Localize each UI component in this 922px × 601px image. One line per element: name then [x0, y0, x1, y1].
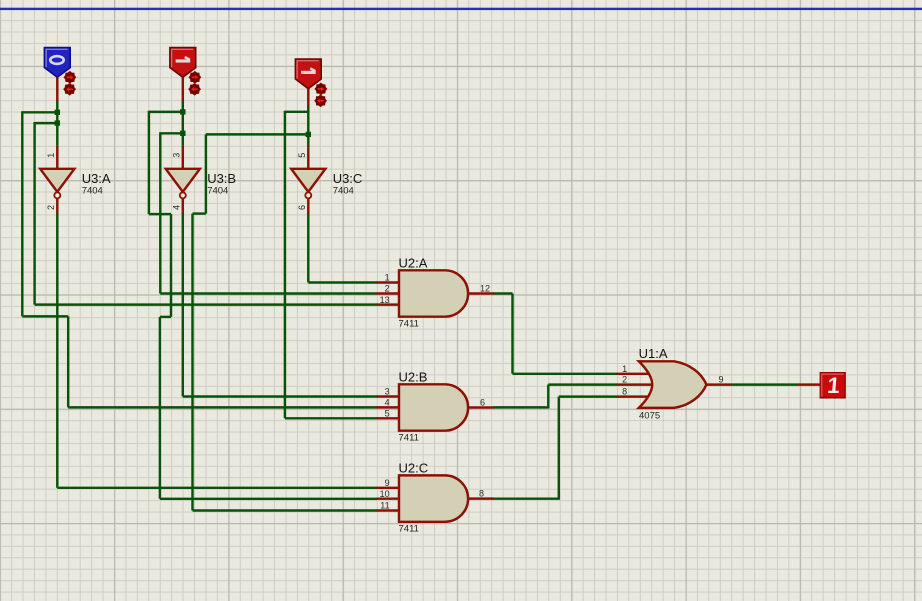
U3:C input pin 5 stub — [297, 147, 308, 170]
U2:B input pin 4 stub — [377, 398, 400, 408]
svg-text:8: 8 — [479, 489, 484, 499]
svg-text:13: 13 — [380, 295, 390, 305]
wire net C branch1 to U2:B pin5 — [285, 111, 378, 419]
junction net A upper — [55, 110, 60, 115]
AND gate U2:B (7411) — [399, 369, 469, 443]
svg-text:1: 1 — [385, 273, 390, 283]
svg-text:1: 1 — [622, 364, 627, 374]
svg-text:7411: 7411 — [399, 319, 419, 330]
U2:C input pin 10 stub — [377, 489, 400, 499]
svg-text:12: 12 — [480, 284, 490, 294]
U3:C output pin 6 stub — [297, 198, 308, 214]
svg-text:U1:A: U1:A — [639, 346, 668, 361]
probe C pin stub — [307, 89, 309, 108]
U2:A input pin 1 stub — [377, 273, 400, 283]
junction net A lower — [55, 120, 60, 125]
blue sheet border line (top) — [0, 8, 922, 10]
svg-text:U3:A: U3:A — [82, 171, 111, 186]
wire net B branch2 to U2:A pin2 — [160, 132, 377, 293]
U3:A output pin 2 stub — [46, 198, 57, 214]
svg-text:4: 4 — [385, 398, 390, 408]
svg-text:11: 11 — [380, 501, 389, 511]
svg-text:7404: 7404 — [82, 185, 103, 196]
toggle button A up — [64, 71, 76, 83]
svg-text:3: 3 — [172, 153, 182, 158]
input logic-state probe C (1) — [295, 59, 321, 89]
toggle button A down — [64, 83, 76, 95]
U1:A input pin 2 stub — [617, 375, 652, 385]
svg-text:7411: 7411 — [399, 524, 419, 535]
wire net A probe drop — [56, 102, 58, 146]
U2:A input pin 2 stub — [377, 284, 400, 294]
probe B pin stub — [182, 77, 184, 103]
svg-text:2: 2 — [46, 205, 56, 210]
svg-text:7404: 7404 — [333, 185, 354, 196]
svg-text:7411: 7411 — [399, 433, 419, 444]
U2:B output pin 6 stub — [467, 398, 493, 408]
svg-text:2: 2 — [622, 375, 627, 385]
wire net B probe drop — [182, 102, 184, 146]
AND gate U2:A (7411) — [399, 255, 469, 329]
inverter U3:C (7404) — [291, 169, 362, 199]
U2:A output pin 12 stub — [467, 284, 493, 294]
toggle button B up — [189, 71, 201, 83]
wire net B-bar U3:B out to U2:B pin3 — [183, 213, 378, 397]
svg-text:10: 10 — [380, 489, 390, 499]
svg-text:1: 1 — [46, 153, 56, 158]
toggle button C up — [315, 83, 327, 95]
inverter U3:A (7404) — [40, 169, 111, 199]
U1:A input pin 8 stub — [617, 387, 649, 397]
U2:B input pin 3 stub — [377, 387, 400, 397]
svg-text:5: 5 — [297, 153, 307, 158]
wire net C branch2 to U2:C pin11 — [193, 134, 378, 510]
svg-text:4075: 4075 — [639, 410, 660, 421]
U2:C input pin 9 stub — [377, 478, 400, 488]
svg-text:1: 1 — [826, 373, 841, 398]
svg-text:U3:B: U3:B — [207, 171, 236, 186]
svg-text:U2:B: U2:B — [399, 369, 428, 384]
output logic probe (1) — [820, 373, 845, 398]
svg-text:8: 8 — [622, 387, 627, 397]
AND gate U2:C (7411) — [399, 460, 469, 534]
svg-text:5: 5 — [385, 409, 390, 419]
svg-text:9: 9 — [385, 478, 390, 488]
svg-text:6: 6 — [480, 398, 485, 408]
toggle button B down — [189, 83, 201, 95]
inverter U3:B (7404) — [166, 169, 236, 199]
svg-text:3: 3 — [385, 387, 390, 397]
toggle button C down — [315, 95, 327, 107]
wire net C probe drop — [307, 106, 309, 147]
U2:C output pin 8 stub — [467, 489, 493, 499]
svg-text:6: 6 — [297, 205, 307, 210]
wire net U2:C out to U1:A pin8 — [491, 397, 617, 500]
wire net A branch2 to U2:A pin13 — [35, 122, 378, 305]
svg-text:U2:A: U2:A — [399, 255, 428, 270]
wire net output U1:A pin9 to probe — [731, 383, 798, 385]
OR gate U1:A (4075) — [639, 346, 707, 422]
junction net B lower — [180, 131, 185, 136]
wire net B branch1 to U2:C pin10 — [149, 111, 378, 499]
svg-text:2: 2 — [385, 284, 390, 294]
junction net B upper — [180, 109, 185, 114]
U3:B input pin 3 stub — [172, 146, 183, 170]
svg-text:U3:C: U3:C — [333, 171, 363, 186]
svg-text:4: 4 — [172, 205, 182, 210]
wire net U2:B out to U1:A pin2 — [493, 385, 617, 409]
input logic-state probe A (0) — [44, 48, 70, 78]
U2:B input pin 5 stub — [377, 409, 400, 419]
wire net A branch1 to U2:B pin4 — [22, 111, 377, 407]
svg-text:9: 9 — [718, 374, 723, 384]
svg-text:U2:C: U2:C — [399, 460, 429, 475]
input logic-state probe B (1) — [170, 48, 196, 78]
U1:A output pin 9 stub — [705, 374, 731, 384]
wire net A-bar U3:A out to U2:C pin9 — [57, 213, 377, 488]
probe A pin stub — [56, 77, 58, 103]
U3:A input pin 1 stub — [46, 146, 57, 170]
U1:A input pin 1 stub — [617, 364, 649, 374]
wire net C-bar U3:C out to U2:A pin1 — [308, 213, 377, 283]
wire net U2:A out to U1:A pin1 — [493, 294, 617, 374]
svg-text:7404: 7404 — [207, 185, 228, 196]
U3:B output pin 4 stub — [172, 198, 183, 214]
U2:C input pin 11 stub — [377, 501, 400, 511]
U2:A input pin 13 stub — [377, 295, 400, 305]
junction net C — [306, 132, 311, 137]
output probe pin stub — [798, 383, 821, 385]
